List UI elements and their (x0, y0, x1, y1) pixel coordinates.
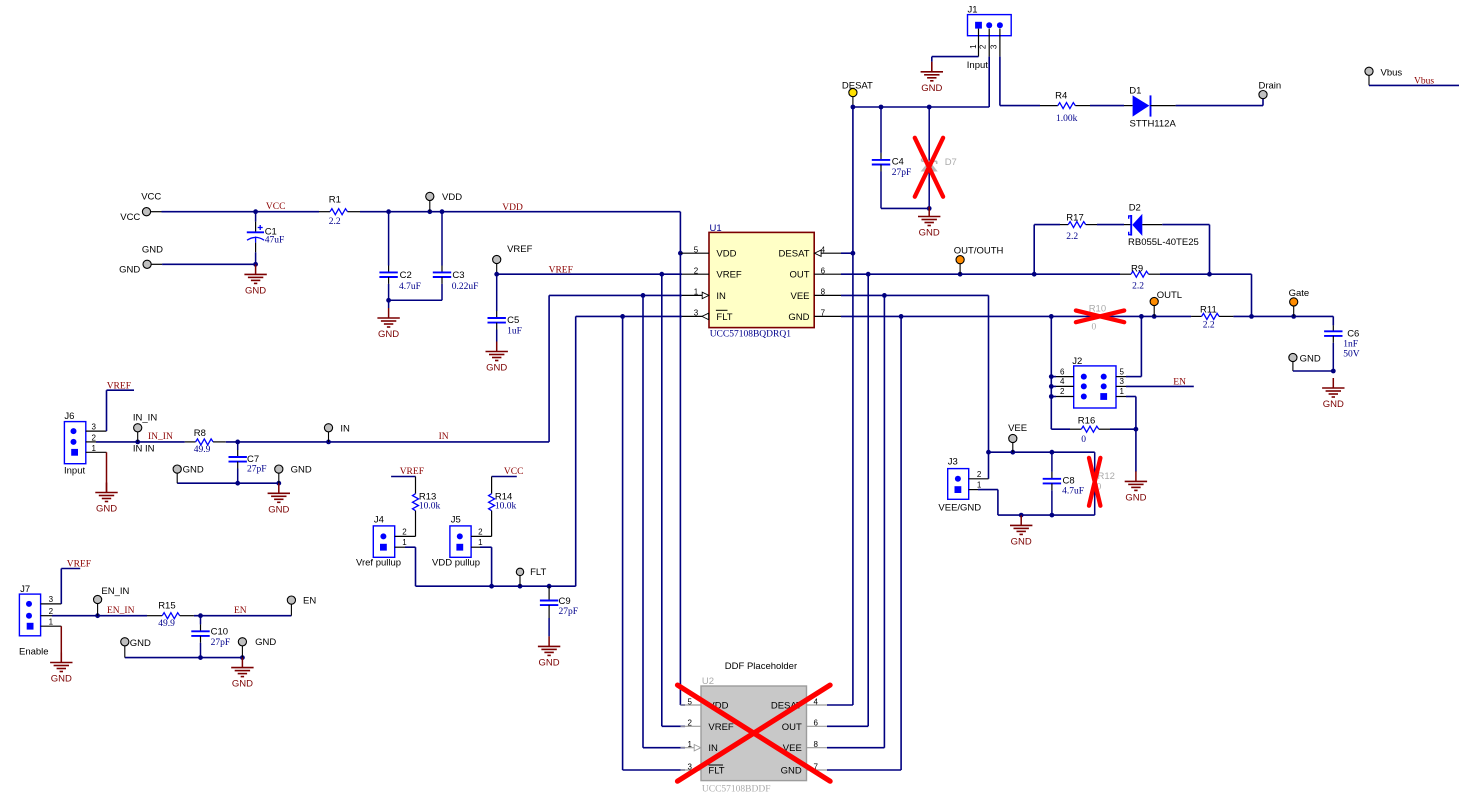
resistor R12 (DNP) (1095, 452, 1115, 515)
svg-text:R15: R15 (158, 601, 175, 612)
svg-text:GND: GND (781, 766, 802, 777)
port Vbus (1365, 67, 1403, 85)
svg-text:FLT: FLT (716, 312, 732, 323)
svg-text:UCC57108BDDF: UCC57108BDDF (702, 784, 771, 794)
svg-text:VDD: VDD (716, 249, 736, 260)
svg-text:EN_IN: EN_IN (101, 586, 129, 597)
svg-text:C10: C10 (211, 627, 228, 638)
port VDD (426, 192, 462, 212)
svg-text:J3: J3 (948, 457, 958, 468)
svg-text:2: 2 (478, 528, 483, 537)
svg-text:GND: GND (378, 329, 399, 340)
svg-text:GND: GND (96, 504, 117, 515)
DNP cross U2 (678, 685, 831, 781)
svg-text:VREF: VREF (507, 244, 533, 255)
capacitor C6 (1324, 325, 1360, 373)
wire VDD net (360, 209, 685, 705)
svg-text:D1: D1 (1129, 86, 1141, 97)
svg-text:C5: C5 (507, 315, 519, 326)
capacitor C10 (191, 616, 230, 658)
DNP cross D7 (915, 138, 943, 197)
svg-text:1: 1 (969, 44, 978, 49)
ground (C2/C3) (377, 308, 399, 340)
svg-text:Vbus: Vbus (1381, 67, 1403, 78)
net label IN (439, 432, 449, 442)
svg-text:OUT: OUT (782, 722, 802, 733)
ground (J6) (95, 483, 117, 515)
port DESAT (842, 80, 873, 107)
svg-text:0: 0 (1092, 322, 1097, 332)
svg-text:GND: GND (1300, 354, 1321, 365)
svg-text:Gate: Gate (1289, 288, 1310, 299)
svg-text:GND: GND (919, 228, 940, 239)
svg-text:GND: GND (486, 363, 507, 374)
svg-text:R4: R4 (1055, 90, 1067, 101)
svg-text:DDF Placeholder: DDF Placeholder (725, 661, 797, 672)
svg-text:47uF: 47uF (265, 236, 285, 246)
svg-text:IN: IN (708, 743, 718, 754)
port OUT/OUTH (954, 246, 1004, 275)
svg-text:GND: GND (1125, 492, 1146, 503)
port VCC (120, 192, 161, 224)
wire GND (C10 row) (125, 655, 245, 660)
capacitor C3 (389, 212, 479, 301)
svg-text:27pF: 27pF (559, 607, 579, 617)
svg-text:VDD: VDD (442, 192, 462, 203)
net label VCC (R14) (492, 467, 524, 477)
wire J1 pin2 (988, 57, 990, 107)
svg-text:2.2: 2.2 (1066, 232, 1078, 242)
svg-text:IN: IN (439, 432, 449, 442)
svg-text:GND: GND (183, 464, 204, 475)
ground (J3 row) (1010, 515, 1032, 547)
capacitor C9 (540, 586, 578, 636)
svg-text:GND: GND (51, 674, 72, 685)
svg-text:VCC: VCC (141, 192, 161, 203)
port IN (324, 423, 350, 442)
port GND (C7 right) (275, 464, 312, 483)
svg-text:DESAT: DESAT (842, 80, 873, 91)
svg-text:VEE: VEE (1008, 423, 1027, 434)
ground (R16) (1125, 471, 1147, 503)
net label EN (234, 606, 247, 616)
svg-text:IN_IN: IN_IN (148, 432, 173, 442)
resistor R10 (DNP) (1089, 303, 1106, 332)
svg-text:1: 1 (478, 538, 483, 547)
connector J2 (1056, 356, 1126, 408)
port Drain (1259, 80, 1282, 98)
svg-text:STTH112A: STTH112A (1130, 118, 1177, 129)
net label EN_IN (107, 606, 135, 616)
svg-text:GND: GND (788, 312, 809, 323)
svg-text:6: 6 (813, 719, 818, 728)
connector J1 (967, 5, 1011, 71)
connector J3 (938, 457, 988, 514)
svg-text:1uF: 1uF (507, 327, 522, 337)
svg-text:GND: GND (255, 637, 276, 648)
port VEE (1008, 423, 1027, 452)
svg-text:Input: Input (64, 466, 85, 477)
svg-text:4.7uF: 4.7uF (1062, 486, 1084, 496)
ground (C9) (538, 636, 560, 668)
resistor R16 (1051, 415, 1138, 445)
svg-text:2: 2 (979, 44, 988, 49)
svg-text:GND: GND (539, 657, 560, 668)
resistor R1 (319, 195, 360, 227)
svg-text:GND: GND (245, 285, 266, 296)
svg-text:FLT: FLT (530, 567, 546, 578)
ground (C5) (486, 342, 508, 374)
svg-text:GND: GND (232, 679, 253, 690)
port GND (C7 left) (173, 464, 204, 483)
net label VREF (549, 265, 573, 275)
resistor R17 (1034, 213, 1124, 275)
svg-text:C6: C6 (1347, 328, 1359, 339)
IC U1 UCC57108BQDRQ1 (680, 223, 841, 340)
svg-text:6: 6 (821, 266, 826, 275)
svg-text:DESAT: DESAT (779, 249, 810, 260)
svg-text:OUTL: OUTL (1157, 290, 1182, 301)
resistor R13 (413, 477, 441, 537)
svg-text:4: 4 (813, 697, 818, 706)
wire VCC net (151, 209, 319, 214)
port EN (287, 595, 316, 615)
wire GND (C7 row) (177, 481, 281, 486)
svg-text:C2: C2 (400, 270, 412, 281)
port GND (near C6) (1289, 353, 1334, 371)
wire GND (J6 pin1) (106, 452, 108, 492)
svg-text:GND: GND (142, 244, 163, 255)
resistor R11 (1191, 304, 1233, 330)
port GND (C10 right) (238, 637, 276, 658)
svg-text:3: 3 (49, 595, 54, 604)
svg-text:J6: J6 (64, 411, 74, 422)
svg-text:1: 1 (1120, 387, 1125, 396)
svg-text:50V: 50V (1343, 350, 1360, 360)
net label VDD (502, 203, 523, 213)
wire IN_IN net (96, 440, 185, 445)
ground (C10) (231, 658, 253, 690)
svg-text:1: 1 (687, 740, 692, 749)
svg-text:1: 1 (694, 288, 699, 297)
ground (C1) (244, 264, 266, 296)
net label IN_IN (148, 432, 173, 442)
svg-text:GND: GND (1323, 399, 1344, 410)
wire GND net (left) (151, 262, 258, 267)
svg-text:GND: GND (130, 638, 151, 649)
svg-text:OUT/OUTH: OUT/OUTH (954, 246, 1004, 257)
svg-text:5: 5 (1120, 367, 1125, 376)
port OUTL (1150, 290, 1182, 317)
wire DESAT net (827, 105, 989, 705)
resistor R8 (185, 428, 226, 455)
svg-text:FLT: FLT (708, 766, 724, 777)
ground (C7) (268, 483, 290, 515)
svg-text:1: 1 (49, 618, 54, 627)
svg-text:VCC: VCC (120, 212, 140, 223)
svg-text:0.22uF: 0.22uF (452, 282, 479, 292)
port EN_IN (94, 586, 130, 616)
diode D7 (DNP) (922, 107, 957, 211)
svg-text:OUT: OUT (789, 270, 809, 281)
svg-text:8: 8 (821, 288, 826, 297)
port GND (C10 left) (121, 638, 151, 658)
svg-text:GND: GND (1011, 536, 1032, 547)
svg-text:GND: GND (921, 83, 942, 94)
svg-text:J4: J4 (374, 515, 384, 526)
svg-text:VDD: VDD (502, 203, 523, 213)
svg-text:D2: D2 (1129, 203, 1141, 214)
wire EN stub (J2 pin3) (1126, 385, 1194, 387)
wire IN net (226, 293, 685, 748)
port VREF (493, 244, 533, 274)
resistor R9 (1120, 263, 1160, 291)
wire OUTL net (GND pin row) (827, 314, 1333, 770)
svg-text:27pF: 27pF (892, 168, 912, 178)
wire J1 pin1 to GND (932, 57, 979, 72)
port FLT (516, 567, 546, 586)
svg-text:Vbus: Vbus (1414, 76, 1434, 86)
svg-text:Vref pullup: Vref pullup (356, 558, 401, 569)
net label VREF (J6 pin3) (107, 381, 135, 431)
svg-text:EN: EN (1173, 378, 1186, 388)
svg-text:VCC: VCC (266, 202, 286, 212)
svg-text:2: 2 (402, 528, 407, 537)
svg-text:27pF: 27pF (211, 638, 231, 648)
svg-text:8: 8 (813, 740, 818, 749)
svg-text:UCC57108BQDRQ1: UCC57108BQDRQ1 (710, 330, 792, 340)
svg-text:IN: IN (340, 423, 350, 434)
svg-text:3: 3 (1120, 377, 1125, 386)
svg-text:VEE/GND: VEE/GND (938, 502, 981, 513)
svg-text:1: 1 (402, 538, 407, 547)
wire OUT net (827, 272, 1252, 726)
svg-text:R17: R17 (1066, 213, 1083, 224)
wire EN net (194, 613, 292, 618)
net label Vbus (1414, 76, 1434, 86)
svg-text:D7: D7 (945, 157, 957, 168)
svg-text:GND: GND (268, 504, 289, 515)
wire FLT net (405, 314, 685, 770)
DNP cross R12 (1089, 458, 1100, 506)
svg-text:C4: C4 (892, 157, 904, 168)
net label VREF (R13) (391, 467, 424, 477)
svg-text:49.9: 49.9 (194, 445, 211, 455)
svg-text:EN: EN (303, 595, 316, 606)
connector J4 (356, 515, 416, 569)
svg-text:2: 2 (977, 470, 982, 479)
svg-text:27pF: 27pF (247, 465, 267, 475)
wire VEE net (827, 293, 1095, 748)
svg-text:R8: R8 (194, 428, 206, 439)
capacitor C8 (1043, 452, 1084, 515)
svg-text:Input: Input (967, 60, 988, 71)
svg-text:IN IN: IN IN (133, 444, 155, 455)
svg-text:4: 4 (1060, 377, 1065, 386)
net label VCC (266, 202, 286, 212)
svg-text:2.2: 2.2 (329, 217, 341, 227)
IC U2 UCC57108BDDF (DDF placeholder, DNP) (681, 661, 828, 794)
wire J2 pin1 (1126, 397, 1136, 430)
svg-text:R12: R12 (1098, 471, 1115, 482)
wire J2 pin5 (1126, 316, 1141, 376)
svg-text:10.0k: 10.0k (419, 502, 441, 512)
ground (C6) (1322, 378, 1344, 410)
svg-text:C9: C9 (559, 596, 571, 607)
svg-text:Drain: Drain (1259, 80, 1282, 91)
svg-text:RB055L-40TE25: RB055L-40TE25 (1128, 237, 1199, 248)
svg-text:2.2: 2.2 (1203, 321, 1215, 331)
capacitor C5 (488, 274, 522, 341)
svg-text:R16: R16 (1078, 415, 1095, 426)
svg-text:J5: J5 (451, 515, 461, 526)
svg-text:R9: R9 (1131, 263, 1143, 274)
svg-text:EN: EN (234, 606, 247, 616)
svg-text:2: 2 (694, 266, 699, 275)
connector J6 (64, 411, 107, 476)
svg-text:2: 2 (92, 433, 97, 442)
port Gate (1289, 288, 1310, 316)
svg-text:EN_IN: EN_IN (107, 606, 135, 616)
svg-text:C3: C3 (452, 270, 464, 281)
svg-text:VREF: VREF (549, 265, 573, 275)
svg-text:1: 1 (92, 444, 97, 453)
svg-text:4.7uF: 4.7uF (399, 282, 421, 292)
net label VREF (J7 pin3) (61, 559, 91, 604)
wire Vbus net (1369, 84, 1459, 86)
svg-text:3: 3 (694, 309, 699, 318)
svg-text:3: 3 (989, 44, 998, 49)
wire VREF net (494, 272, 685, 726)
svg-text:0: 0 (1081, 435, 1086, 445)
ground (J7) (50, 653, 72, 685)
wire J2 select pins to OUTL (1049, 316, 1056, 429)
connector J7 (19, 584, 61, 658)
svg-text:Enable: Enable (19, 647, 49, 658)
resistor R15 (147, 601, 194, 630)
capacitor C7 (229, 442, 267, 483)
svg-text:VEE: VEE (790, 291, 809, 302)
ground (J1) (921, 62, 943, 94)
wire R16 to ground (1135, 429, 1137, 471)
svg-text:VREF: VREF (716, 270, 742, 281)
wire GND (J7 pin1) (60, 626, 62, 662)
net label EN (J2) (1173, 378, 1186, 388)
svg-text:VREF: VREF (708, 722, 734, 733)
resistor R14 (489, 477, 517, 537)
svg-text:1: 1 (977, 481, 982, 490)
svg-text:2: 2 (687, 719, 692, 728)
wire Drain net (1000, 57, 1263, 106)
svg-text:GND: GND (291, 464, 312, 475)
svg-text:2: 2 (1060, 387, 1065, 396)
resistor R4 (1040, 90, 1090, 123)
port GND (left) (119, 244, 163, 275)
svg-text:7: 7 (821, 309, 826, 318)
ground (C4/D7) (918, 207, 940, 239)
svg-text:IN: IN (716, 291, 726, 302)
svg-text:R11: R11 (1200, 304, 1217, 315)
svg-text:1.00k: 1.00k (1056, 114, 1078, 124)
svg-text:1nF: 1nF (1343, 340, 1358, 350)
svg-text:J7: J7 (20, 584, 30, 595)
wire GND (J3 bottom) (978, 490, 1095, 518)
capacitor C4 (872, 107, 929, 208)
capacitor C2 (379, 212, 421, 301)
DNP cross R10 (1076, 311, 1124, 323)
svg-text:5: 5 (694, 245, 699, 254)
port IN_IN (133, 413, 157, 455)
svg-text:3: 3 (92, 423, 97, 432)
capacitor C1 (247, 213, 284, 264)
svg-text:2: 2 (49, 607, 54, 616)
svg-text:5: 5 (687, 697, 692, 706)
svg-text:C7: C7 (247, 454, 259, 465)
wire EN_IN net (52, 613, 147, 618)
svg-text:IN_IN: IN_IN (133, 413, 157, 424)
svg-text:GND: GND (119, 264, 140, 275)
svg-text:VDD pullup: VDD pullup (432, 558, 480, 569)
svg-text:R1: R1 (329, 195, 341, 206)
diode D1 (1124, 86, 1176, 130)
svg-text:10.0k: 10.0k (495, 502, 517, 512)
svg-text:6: 6 (1060, 367, 1065, 376)
connector J5 (432, 515, 492, 569)
svg-text:C8: C8 (1063, 475, 1075, 486)
diode D2 (1124, 203, 1210, 275)
node C2/C3 ground (386, 298, 391, 308)
svg-text:49.9: 49.9 (158, 619, 175, 629)
svg-text:2.2: 2.2 (1132, 282, 1144, 292)
